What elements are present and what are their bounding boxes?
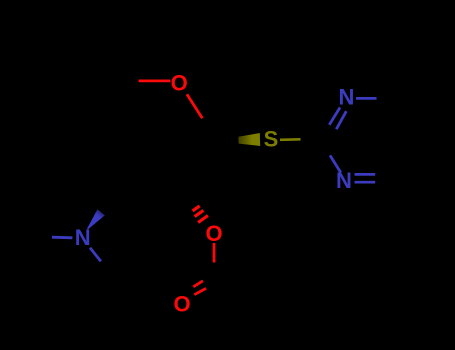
bond O1-C1 (black half) <box>202 118 220 141</box>
bond C1-C2 ring <box>186 141 220 194</box>
bond N-CH3a black half <box>32 236 52 237</box>
bond C1-S wedge black half <box>220 137 239 144</box>
bond C3-N wedge blue half <box>87 209 105 229</box>
bond C1-S wedge sulfur half <box>238 133 260 146</box>
bond C3-C4 ring <box>85 140 112 199</box>
bond C4-N3 black half inner <box>375 173 389 176</box>
svg-text:N: N <box>336 168 352 193</box>
bond C2-N1 black half main <box>321 125 329 138</box>
bond N1-C6 black half <box>377 97 394 100</box>
bond N1-C6 blue half <box>356 97 377 100</box>
svg-text:S: S <box>264 127 279 152</box>
bond S-C2pym black half <box>301 138 322 139</box>
bond C-CH3 acetyl <box>214 280 250 298</box>
bond C=O black half B <box>206 284 209 289</box>
svg-text:O: O <box>173 291 190 316</box>
bond S-C2pym olive half <box>280 138 301 141</box>
svg-text:O: O <box>205 221 222 246</box>
bond C2-N1 black half inner <box>330 129 336 131</box>
bond C3-N wedge black half <box>98 195 117 215</box>
bond C2-C3 ring <box>112 194 186 199</box>
bond C5-O1 red half <box>139 80 171 83</box>
bond N-CH3b black half <box>101 261 112 275</box>
bond C2=N1 inner blue half <box>336 111 346 129</box>
bond C2-O2 hashed wedge red hashes <box>193 206 200 211</box>
bond N-CH3a blue half <box>52 236 72 239</box>
bond C2=N1 main blue half <box>329 108 340 125</box>
bond C2-N3 blue half <box>330 155 341 172</box>
bond C=O black half A <box>203 279 214 283</box>
bond O2-C carbonyl red half <box>213 243 216 263</box>
bond O1-C1 red half <box>187 94 202 118</box>
bond N-CH3b blue half <box>90 248 101 262</box>
svg-text:O: O <box>171 71 188 96</box>
bond C5-C4 pyrimidine <box>393 138 417 180</box>
bond C6-C5 pyrimidine <box>393 97 417 139</box>
bond N3=C4 inner blue half <box>355 173 376 176</box>
bond O2-C carbonyl black half <box>212 263 215 281</box>
bond C2-O2 hashed wedge black hashes <box>187 197 191 200</box>
bond C4-C5 ring <box>85 81 113 140</box>
bond C=O red half A <box>193 281 203 287</box>
bond C5-O1 (black half) <box>113 80 150 83</box>
bond C=O red half B <box>194 288 206 294</box>
bond C4-N3 black half main <box>375 181 393 184</box>
bond C2-N3 black half <box>321 138 330 155</box>
bond N3=C4 main blue half <box>355 181 376 184</box>
svg-text:N: N <box>338 85 354 110</box>
